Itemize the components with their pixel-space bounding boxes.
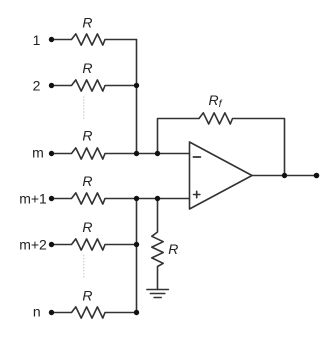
svg-text:R: R (82, 128, 92, 144)
svg-text:R: R (82, 173, 92, 189)
svg-text:R: R (82, 288, 92, 304)
svg-text:Rf: Rf (209, 92, 223, 110)
svg-text:m: m (32, 145, 44, 161)
svg-text:n: n (33, 304, 41, 320)
svg-text:R: R (82, 60, 92, 76)
svg-text:1: 1 (33, 32, 41, 48)
svg-text:R: R (168, 241, 178, 257)
svg-text:m+2: m+2 (19, 236, 47, 252)
svg-text:R: R (82, 219, 92, 235)
svg-text:2: 2 (33, 78, 41, 94)
svg-text:m+1: m+1 (19, 190, 47, 206)
svg-text:R: R (82, 15, 92, 31)
